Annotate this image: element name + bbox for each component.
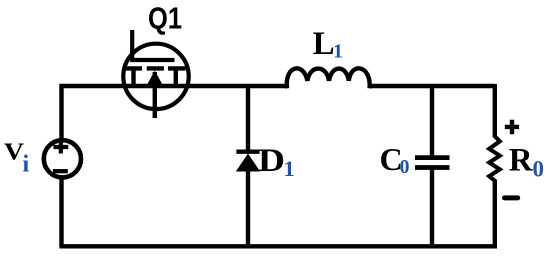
svg-text:Q1: Q1 [148,1,182,35]
svg-text:0: 0 [400,156,410,178]
svg-text:D: D [258,143,285,179]
svg-text:L: L [313,26,335,62]
svg-text:1: 1 [333,40,343,62]
svg-text:1: 1 [284,156,295,181]
svg-text:R: R [509,143,534,179]
svg-text:0: 0 [533,157,545,182]
svg-text:i: i [23,152,30,178]
